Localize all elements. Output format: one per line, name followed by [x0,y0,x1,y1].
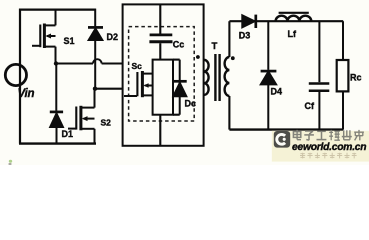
transformer secondary winding [225,57,230,96]
svg-text:Cf: Cf [305,101,315,111]
wire right bottom rail [229,128,343,130]
wire to clamp box lower [95,88,123,90]
mosfet Sc [124,71,153,97]
svg-text:D2: D2 [107,32,119,42]
clamp loop rectangle [153,60,173,115]
svg-text:Sc: Sc [132,61,143,71]
diode D4 [261,21,277,129]
watermark logo [274,131,290,148]
wire loop top ext [173,59,180,61]
capacitor Cc [149,35,172,42]
watermark small cjk line [300,153,357,159]
node bridge lower [93,87,97,91]
svg-text:Cc: Cc [173,40,185,50]
inductor Lf core bar [279,12,309,14]
svg-text:Lf: Lf [288,29,297,39]
svg-text:eeworld.com.cn: eeworld.com.cn [292,142,366,153]
node primary dot [196,55,200,59]
svg-text:Rc: Rc [350,73,362,83]
capacitor Cf [309,21,330,129]
diode D2 [88,9,103,88]
svg-text:D3: D3 [239,31,251,41]
source Vin [5,64,26,85]
clamp cell solid box [123,4,204,145]
svg-text:S2: S2 [101,117,112,127]
transformer T primary winding [204,60,209,95]
svg-text:Vin: Vin [18,88,35,100]
wire left vertical [19,9,21,144]
svg-text:Dc: Dc [185,99,197,109]
wire Cc to loop [159,43,161,59]
wire secondary bottom [228,96,230,130]
wire top-left rail [19,9,96,11]
wire hop [93,59,102,63]
transformer core [214,54,216,101]
scan speck green [9,160,12,163]
wire bridge mid upper [55,62,93,64]
watermark cjk line1 电子工程世界 [293,130,364,141]
wire right top rail [229,20,343,22]
svg-text:S1: S1 [64,36,75,46]
diode Dc [173,60,187,115]
wire clamp center upper [159,4,161,33]
mosfet S1 [32,10,56,64]
wire to clamp box upper [102,62,123,64]
clamp cell dashed box [129,27,195,121]
wire loop bottom ext [173,114,180,116]
resistor Rc [337,21,349,129]
watermark bar [272,131,369,162]
wire bottom-left rail [19,142,96,144]
node secondary dot [231,56,235,60]
diode D1 [50,64,63,144]
wire clamp center lower [159,115,161,146]
svg-text:T: T [212,41,218,52]
wire secondary top [228,21,230,57]
inductor Lf [276,16,312,22]
svg-text:D4: D4 [271,87,283,97]
diode D3 [242,15,256,28]
mosfet S2 [68,89,95,144]
svg-text:D1: D1 [62,129,74,139]
node bridge upper [54,61,58,65]
